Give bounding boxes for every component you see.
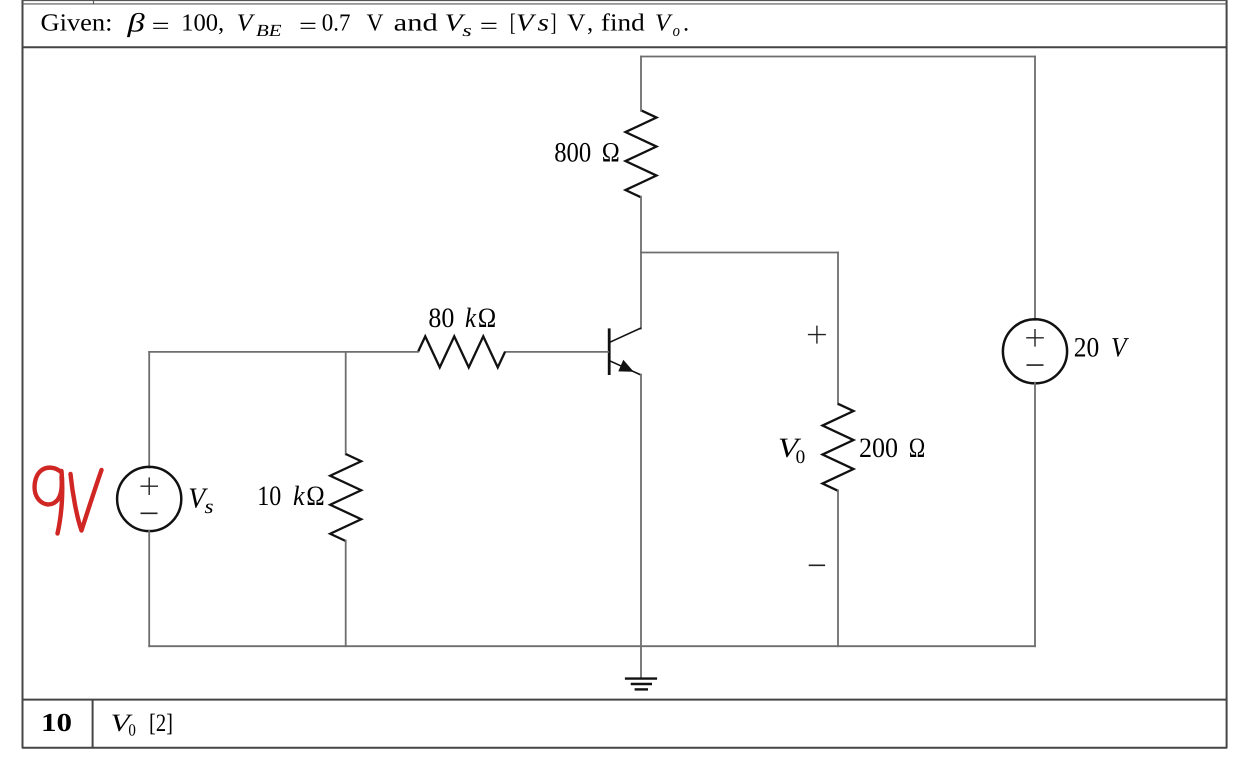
label 200 ohm [859,433,926,464]
wire: right rail lower (20V source to bottom rail) [1034,383,1036,647]
svg-text:20: 20 [1074,333,1100,364]
bottom row: V0 [2] [111,710,173,740]
svg-text:k: k [293,481,305,512]
bottom row: question number 10 [41,708,72,737]
svg-text:0.7: 0.7 [322,10,351,37]
svg-text:V: V [1111,333,1129,364]
svg-text:k: k [465,303,476,334]
wire: 200 ohm to bottom rail [837,490,839,646]
svg-text:10: 10 [257,481,281,512]
transistor Q1 base bar [608,328,611,375]
svg-text:800: 800 [554,137,591,168]
svg-text:β: β [126,7,146,37]
svg-text:[: [ [510,10,516,37]
wire: right rail upper (top rail to 20V source) [1034,57,1036,320]
wire: left branch down to Vs [148,352,150,468]
label 20 V [1074,333,1129,364]
resistor 800 ohm [626,110,657,197]
wire: bottom rail [149,645,1035,647]
wire: top rail [641,56,1035,58]
wire: base wire from 80k to transistor [505,351,608,353]
svg-text:200: 200 [859,433,898,464]
svg-text:]: ] [551,10,557,37]
transistor Q1 collector stroke [610,328,641,342]
voltage source V1 20V [1003,319,1067,383]
handwritten annotation 9V (red) [35,468,102,534]
svg-text:and: and [394,10,438,37]
svg-text:100,: 100, [181,10,224,37]
label Vs [188,483,213,519]
minus sign of Vs [141,512,158,514]
wire: emitter to ground [640,375,642,679]
svg-text:Ω: Ω [602,137,621,168]
ground [625,679,657,690]
label V0 [778,433,805,468]
wire: Vs to bottom rail [148,531,150,647]
voltage source Vs [117,467,181,531]
resistor 10 kohm [330,454,361,541]
wire: collector node to 200 ohm branch [641,252,838,254]
wire: 200 ohm branch top [837,253,839,405]
svg-text:Ω: Ω [909,433,926,464]
header text: Given: beta = 100, VBE = 0.7 V and Vs = [Vs] V, find Vo. [41,7,690,40]
resistor 200 ohm [823,404,854,491]
label 80 kohm [428,303,496,334]
svg-text:Ω: Ω [306,481,325,512]
svg-text:Ω: Ω [478,303,497,334]
plus sign of V0 polarity [808,326,826,344]
wire: top rail to 800 ohm [640,57,642,111]
minus sign of 20V source [1027,364,1044,366]
svg-text:V: V [367,10,384,37]
svg-text:V: V [237,10,256,37]
wire: left node to 80 kohm [149,351,418,353]
svg-text:s: s [205,496,214,518]
svg-text:o: o [673,21,680,40]
svg-text:V: V [655,10,673,37]
label 10 kohm [257,481,325,512]
wire: 10k branch top [345,352,347,455]
svg-text:V: V [516,10,537,37]
plus sign of Vs [140,477,158,495]
svg-text:=: = [480,13,498,40]
svg-text:BE: BE [256,21,282,40]
svg-text:s: s [538,10,550,37]
svg-text:80: 80 [428,303,454,334]
svg-text:,: , [587,10,593,37]
wire: 800 ohm to collector node [640,197,642,329]
svg-text:=: = [152,13,170,40]
svg-text:10: 10 [41,708,72,737]
svg-text:Given:: Given: [41,10,113,37]
svg-text:0: 0 [128,720,136,739]
svg-text:0: 0 [796,447,806,468]
svg-text:=: = [299,13,317,40]
label 800 ohm [554,137,620,168]
wire: 10k to bottom rail [345,541,347,647]
minus sign of V0 polarity [809,564,825,566]
svg-text:find: find [601,10,645,37]
svg-text:[2]: [2] [149,710,173,737]
transistor Q1 emitter stroke [610,361,641,375]
svg-text:V: V [567,10,586,37]
svg-text:s: s [462,21,472,40]
svg-text:.: . [683,10,689,37]
transistor Q1 emitter arrow [618,360,633,372]
plus sign of 20V source [1026,329,1044,347]
resistor 80 kohm [418,336,505,367]
